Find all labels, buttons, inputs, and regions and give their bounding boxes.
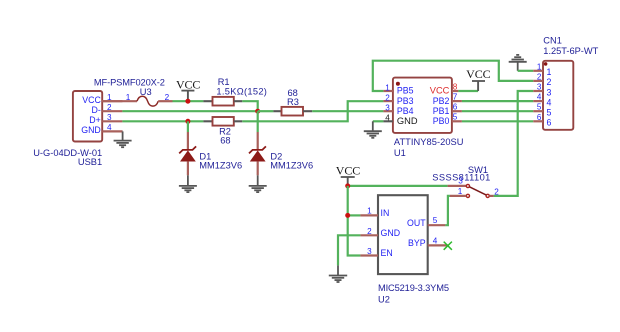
CN1 labels xyxy=(543,36,598,56)
svg-text:68: 68 xyxy=(220,136,230,146)
svg-text:MF-PSMF020X-2: MF-PSMF020X-2 xyxy=(94,78,165,88)
svg-text:IN: IN xyxy=(381,208,390,218)
svg-text:5: 5 xyxy=(547,108,552,118)
resistor R3 xyxy=(273,88,312,116)
CN1 inner pin numbers xyxy=(547,67,552,128)
svg-text:3: 3 xyxy=(367,247,372,256)
U1 pin 7 stub xyxy=(452,100,462,102)
node junction IN branch xyxy=(345,213,350,218)
fuse U3 squiggle xyxy=(137,96,158,106)
svg-text:PB2: PB2 xyxy=(433,96,450,106)
ground (U1 pin 4) xyxy=(364,121,382,138)
CN1 pin stubs 1-6 xyxy=(533,71,543,122)
svg-text:PB3: PB3 xyxy=(397,96,414,106)
svg-text:OUT: OUT xyxy=(407,218,426,228)
svg-text:2: 2 xyxy=(547,77,552,87)
svg-text:VCC: VCC xyxy=(176,77,201,91)
svg-text:BYP: BYP xyxy=(408,238,426,248)
ground (CN1 pin 1, flipped) xyxy=(509,55,527,71)
svg-text:GND: GND xyxy=(381,228,401,238)
svg-text:EN: EN xyxy=(381,248,393,258)
U1 pin numbers xyxy=(385,82,458,122)
svg-text:GND: GND xyxy=(397,116,418,126)
svg-text:5: 5 xyxy=(537,103,542,112)
svg-text:8: 8 xyxy=(453,82,458,91)
svg-text:GND: GND xyxy=(81,125,101,135)
wire SW1 pin 2 to CN1 pin 3 xyxy=(494,91,534,196)
U2 pin numbers xyxy=(367,207,438,256)
svg-text:1: 1 xyxy=(547,67,552,77)
ground (USB1 pin 4) xyxy=(114,131,132,147)
svg-text:1: 1 xyxy=(537,62,542,71)
svg-text:4: 4 xyxy=(433,236,438,245)
svg-text:4: 4 xyxy=(547,97,552,107)
svg-text:1: 1 xyxy=(385,83,390,92)
svg-text:1.5KΩ(152): 1.5KΩ(152) xyxy=(216,86,267,96)
U2 pin names xyxy=(381,208,427,258)
wire U2 OUT to SW1 pin 1 xyxy=(445,196,450,225)
svg-text:PB1: PB1 xyxy=(433,106,450,116)
power VCC symbol (U2 area) xyxy=(336,163,361,186)
svg-text:4: 4 xyxy=(537,93,542,102)
node junction VCC/SW xyxy=(345,183,350,188)
wire R1 to D- node xyxy=(242,101,257,111)
svg-text:2: 2 xyxy=(537,72,542,81)
wire branch to U2 IN xyxy=(348,214,361,216)
USB1 labels xyxy=(33,148,102,167)
ground (D2) xyxy=(249,175,267,192)
svg-text:D-: D- xyxy=(92,105,101,115)
connector CN1 body xyxy=(543,61,573,130)
switch SW1 xyxy=(432,165,499,198)
U1 pin 8 stub xyxy=(452,90,459,92)
U2 pin 3 stub (EN) xyxy=(360,254,378,256)
wire U1 GND pin to ground xyxy=(373,120,384,122)
CN1 outer pin numbers xyxy=(537,62,542,122)
node junction D+/D1 xyxy=(185,119,190,124)
U1 pin 1 stub xyxy=(383,90,393,92)
svg-text:4: 4 xyxy=(107,123,112,132)
USB1 pin names xyxy=(81,95,101,135)
U1 pin 3 stub xyxy=(383,110,393,112)
svg-text:1: 1 xyxy=(367,207,372,216)
fuse U3 lead left xyxy=(102,100,137,102)
connector USB1 body xyxy=(73,91,102,142)
fuse U3 pin numbers xyxy=(126,93,170,102)
svg-text:1.25T-6P-WT: 1.25T-6P-WT xyxy=(543,46,598,56)
wire U2 GND to ground xyxy=(338,235,360,265)
fuse U3 lead right xyxy=(158,100,172,102)
wire D- from USB xyxy=(122,110,257,112)
svg-text:USB1: USB1 xyxy=(78,157,102,167)
svg-text:VCC: VCC xyxy=(430,86,450,96)
USB1 pin 1 stub xyxy=(102,100,122,102)
svg-text:U1: U1 xyxy=(394,148,406,158)
svg-text:4: 4 xyxy=(385,114,390,123)
svg-text:U2: U2 xyxy=(378,295,390,305)
wire VCC down to U2 IN / EN xyxy=(348,186,361,256)
U1 pin names xyxy=(397,86,450,126)
USB1 pin 4 stub xyxy=(102,130,122,132)
wire VCC node to R1 xyxy=(173,100,204,102)
svg-text:2: 2 xyxy=(494,187,499,196)
wire U1 pin 8 to VCC xyxy=(458,90,478,92)
ground (D1) xyxy=(179,175,197,192)
U2 labels xyxy=(378,283,449,305)
svg-text:D+: D+ xyxy=(89,115,101,125)
wire U1 pin 7 to CN1 pin 4 xyxy=(462,100,533,102)
node junction VCC/R1 xyxy=(185,99,190,104)
svg-text:MIC5219-3.3YM5: MIC5219-3.3YM5 xyxy=(378,283,449,293)
svg-text:ATTINY85-20SU: ATTINY85-20SU xyxy=(394,137,464,147)
svg-text:U3: U3 xyxy=(140,87,152,97)
resistor R2 xyxy=(203,117,242,146)
wire R3 to U1 pin 3 xyxy=(312,110,383,112)
svg-text:VCC: VCC xyxy=(336,163,361,177)
U2 pin 1 stub (IN) xyxy=(360,214,378,216)
IC U2 body xyxy=(378,195,428,274)
svg-text:6: 6 xyxy=(547,118,552,128)
IC U1 body xyxy=(393,78,452,133)
U2 pin 5 stub (OUT) xyxy=(428,224,446,226)
U1 pin 4 stub (GND) xyxy=(383,120,393,122)
resistor R1 xyxy=(203,77,267,105)
U1 pin 2 stub xyxy=(383,100,393,102)
wire D+ from USB to R2 xyxy=(122,120,203,122)
U2 pin 4 stub (BYP) xyxy=(428,244,448,246)
svg-text:2: 2 xyxy=(165,93,170,102)
svg-text:CN1: CN1 xyxy=(543,36,562,46)
svg-text:MM1Z3V6: MM1Z3V6 xyxy=(270,161,313,171)
wire PB5 (U1 pin1) to CN1 pin 2 xyxy=(373,61,534,91)
svg-text:6: 6 xyxy=(537,113,542,122)
svg-text:3: 3 xyxy=(547,87,552,97)
svg-text:PB0: PB0 xyxy=(433,116,450,126)
svg-text:2: 2 xyxy=(385,93,390,102)
U2 pin 2 stub (GND) xyxy=(360,234,378,236)
svg-text:2: 2 xyxy=(107,103,112,112)
diode D1 (zener) xyxy=(179,121,242,175)
svg-text:6: 6 xyxy=(453,103,458,112)
wire ground to CN1 pin 1 xyxy=(518,70,534,72)
U1 pin 5 stub xyxy=(452,120,462,122)
svg-text:3: 3 xyxy=(537,83,542,92)
svg-text:R3: R3 xyxy=(287,97,299,107)
U1 pin 6 stub xyxy=(452,110,462,112)
ground (U2 GND) xyxy=(329,265,347,282)
svg-text:VCC: VCC xyxy=(466,67,491,81)
svg-text:VCC: VCC xyxy=(82,95,101,105)
svg-text:5: 5 xyxy=(453,113,458,122)
wire U1 pin 5 to CN1 pin 6 xyxy=(462,120,533,122)
wire VCC to SW1 pin 3 xyxy=(348,185,448,187)
svg-text:MM1Z3V6: MM1Z3V6 xyxy=(199,161,242,171)
svg-text:2: 2 xyxy=(367,227,372,236)
svg-text:1: 1 xyxy=(126,93,131,102)
USB1 pin 3 stub xyxy=(102,120,122,122)
no-connect X (U2 BYP) xyxy=(444,242,452,250)
svg-text:PB5: PB5 xyxy=(397,86,414,96)
fuse U3 labels xyxy=(94,78,165,98)
svg-text:1: 1 xyxy=(458,187,463,196)
svg-text:7: 7 xyxy=(453,92,458,101)
node junction D-/R1/D2 xyxy=(255,109,260,114)
power VCC symbol (U1 pin 8) xyxy=(466,67,491,91)
power VCC symbol (left) xyxy=(176,77,201,101)
svg-text:3: 3 xyxy=(107,113,112,122)
svg-text:5: 5 xyxy=(433,216,438,225)
USB1 pin 2 stub xyxy=(102,110,122,112)
U1 labels xyxy=(394,137,464,158)
wire U1 pin 6 to CN1 pin 5 xyxy=(462,110,533,112)
wire D- node to R3 xyxy=(258,110,274,112)
USB1 pin numbers xyxy=(107,93,112,132)
svg-text:3: 3 xyxy=(385,104,390,113)
diode D2 (zener) xyxy=(249,111,313,175)
svg-text:PB4: PB4 xyxy=(397,106,414,116)
wire R2 to U1 pin 2 xyxy=(242,101,383,121)
svg-text:3: 3 xyxy=(458,176,463,185)
